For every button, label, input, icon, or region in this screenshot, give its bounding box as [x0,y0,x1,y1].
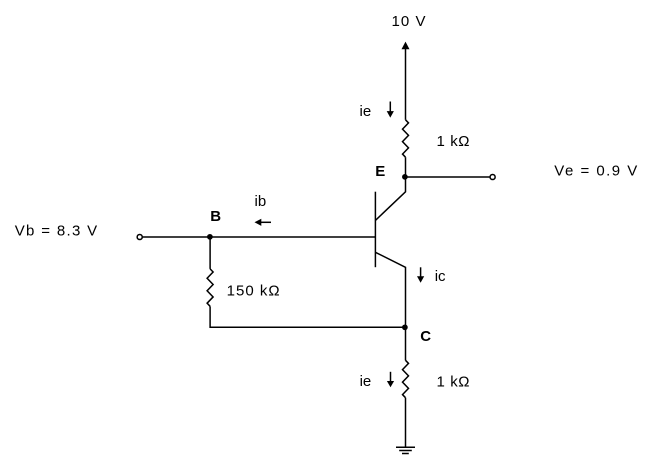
wire: node B to resistor R2 [209,237,211,269]
svg-text:1 kΩ: 1 kΩ [437,133,470,150]
node B junction dot [207,234,213,240]
wire: input terminal to transistor base [142,236,375,238]
svg-text:C: C [420,328,431,345]
wire: bottom rail to node C [210,326,405,328]
resistor R2 150 kOhm [207,269,213,306]
ground symbol [396,447,415,453]
current arrow ie (bottom, down) [387,372,394,388]
wire: R1 bottom to node E [405,157,407,177]
svg-text:Vb = 8.3 V: Vb = 8.3 V [15,223,98,240]
wire: R2 bottom to bottom rail [209,306,211,328]
node E junction dot [402,174,408,180]
wire: node E to output terminal [406,176,490,178]
resistor R3 1 kOhm (bottom) [403,360,409,397]
current arrow ib (left) [255,219,272,226]
transistor Q1 base bar [374,192,376,268]
svg-text:ib: ib [255,193,267,210]
svg-text:B: B [210,208,221,225]
current arrow ic (down) [417,267,424,283]
svg-text:ie: ie [360,103,372,120]
node C junction dot [402,324,408,330]
power supply arrow (up) [402,42,410,120]
wire: R3 to ground [405,398,407,448]
transistor Q1 emitter lead [375,177,405,220]
input terminal Vb (open circle) [137,234,142,239]
svg-text:E: E [375,163,385,180]
wire: node C to resistor R3 [405,327,407,360]
svg-text:Ve = 0.9 V: Ve = 0.9 V [554,163,637,180]
svg-text:150 kΩ: 150 kΩ [227,283,280,300]
transistor Q1 collector lead [375,252,405,327]
svg-text:ie: ie [360,373,372,390]
output terminal (open circle) [490,174,495,179]
svg-text:1 kΩ: 1 kΩ [437,373,470,390]
current arrow ie (top, down) [387,102,394,118]
svg-text:ic: ic [435,268,446,285]
resistor R1 1 kOhm (top) [403,120,409,157]
svg-text:10 V: 10 V [392,13,426,30]
